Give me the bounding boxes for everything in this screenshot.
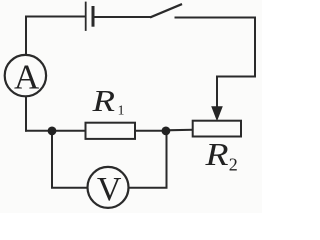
svg-text:2: 2 xyxy=(229,155,238,175)
svg-text:R: R xyxy=(204,136,229,172)
svg-text:A: A xyxy=(14,57,40,96)
svg-text:R: R xyxy=(91,83,115,118)
svg-text:1: 1 xyxy=(118,104,125,119)
svg-text:V: V xyxy=(97,171,122,208)
